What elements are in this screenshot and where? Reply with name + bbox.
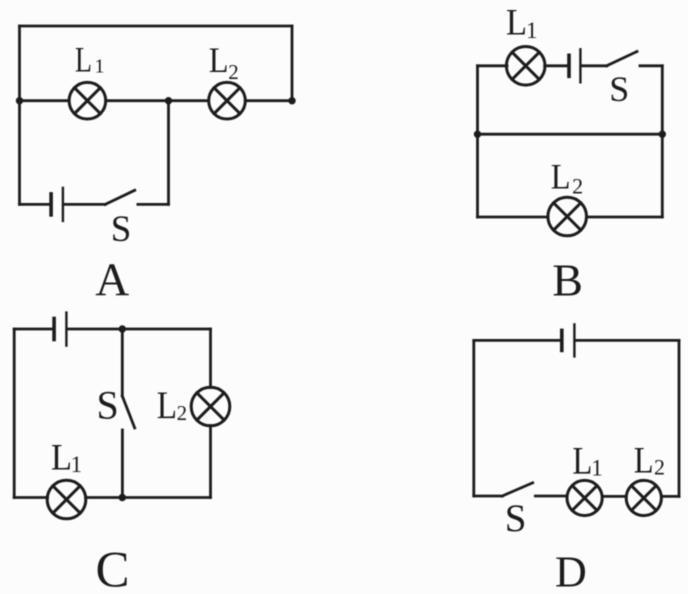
svg-text:L: L — [572, 439, 592, 482]
svg-text:L: L — [75, 39, 92, 79]
lamp L2 (circuit A) — [209, 82, 246, 119]
svg-text:S: S — [505, 497, 527, 540]
label L2 (circuit C) — [157, 384, 187, 427]
wire: circuit A top — [20, 25, 293, 28]
lamp L1 (circuit C) — [47, 480, 86, 519]
wire: circuit B bottom right — [586, 216, 662, 219]
lamp L1 (circuit A) — [69, 82, 106, 119]
wire: circuit A middle row right — [246, 99, 292, 102]
wire: circuit D left vertical — [472, 340, 475, 496]
label L1 (circuit B) — [506, 1, 538, 43]
svg-text:S: S — [97, 383, 119, 428]
label L2 (circuit A) — [209, 40, 239, 84]
wire: circuit A right vertical — [291, 26, 294, 101]
wire: circuit B left vertical — [476, 66, 479, 217]
svg-text:L: L — [506, 1, 527, 42]
svg-text:L: L — [209, 40, 229, 80]
label L1 (circuit A) — [75, 39, 105, 79]
svg-text:1: 1 — [591, 456, 603, 481]
wire: circuit B middle row — [478, 133, 663, 136]
wire: circuit D lamp to corner — [662, 495, 679, 498]
svg-text:2: 2 — [228, 60, 239, 84]
lamp L1 (circuit B) — [506, 47, 545, 86]
wire: circuit B switch to corner — [640, 64, 662, 67]
svg-text:S: S — [609, 69, 629, 109]
junction node (circuit A left) — [16, 97, 23, 104]
label L2 (circuit D) — [634, 439, 665, 480]
wire: circuit D top left — [474, 339, 560, 342]
svg-text:S: S — [111, 209, 132, 250]
svg-text:2: 2 — [177, 401, 188, 425]
wire: circuit B top left — [478, 64, 508, 67]
svg-text:L: L — [157, 384, 177, 427]
switch S blade (circuit B) — [607, 52, 637, 66]
wire: circuit C top right — [68, 328, 211, 331]
svg-text:A: A — [95, 254, 129, 306]
wire: circuit A battery to switch — [64, 203, 105, 206]
wire: circuit C bottom left — [14, 496, 47, 499]
wire: circuit B right vertical — [661, 66, 664, 217]
wire: circuit A bottom left — [20, 203, 50, 206]
svg-text:2: 2 — [654, 454, 665, 479]
wire: circuit A centre vertical — [167, 101, 170, 205]
junction node (circuit B right) — [659, 131, 666, 138]
label L2 (circuit B) — [551, 157, 583, 199]
switch S blade (circuit A) — [105, 190, 135, 204]
lamp L1 (circuit D) — [567, 480, 602, 515]
battery cell (circuit A) — [51, 188, 63, 221]
svg-text:L: L — [51, 436, 72, 477]
svg-text:L: L — [634, 439, 654, 480]
wire: circuit D right vertical — [678, 340, 681, 496]
junction node (circuit C bottom) — [119, 494, 126, 501]
wire: circuit D switch to lamp — [535, 495, 566, 498]
svg-text:1: 1 — [526, 18, 538, 43]
junction node (circuit A right) — [288, 97, 295, 104]
lamp L2 (circuit B) — [548, 197, 587, 236]
svg-text:1: 1 — [95, 56, 105, 78]
wire: circuit C right vertical lower — [209, 426, 212, 498]
switch S blade (circuit D) — [502, 483, 533, 496]
wire: circuit A middle row left — [20, 99, 69, 102]
wire: circuit D bottom left — [474, 495, 502, 498]
lamp L2 (circuit C) — [191, 387, 230, 426]
wire: circuit C switch branch lower — [121, 430, 124, 498]
svg-text:L: L — [551, 157, 571, 197]
battery cell (circuit B) — [569, 49, 580, 82]
wire: circuit D top right — [576, 339, 679, 342]
wire: circuit A middle row centre — [106, 99, 208, 102]
junction node (circuit A centre) — [165, 97, 172, 104]
switch S blade (circuit C) — [122, 396, 134, 428]
wire: circuit C right vertical upper — [209, 329, 212, 388]
svg-text:1: 1 — [71, 452, 83, 477]
wire: circuit B bottom left — [478, 216, 549, 219]
svg-text:C: C — [95, 542, 129, 594]
battery cell (circuit D) — [562, 324, 575, 356]
wire: circuit A left vertical — [18, 26, 21, 204]
wire: circuit B lamp to battery — [545, 64, 568, 67]
svg-text:B: B — [552, 254, 583, 305]
label L1 (circuit C) — [51, 436, 82, 477]
svg-text:D: D — [555, 547, 587, 594]
wire: circuit C top left — [14, 328, 52, 331]
junction node (circuit C top) — [119, 325, 126, 332]
junction node (circuit B left) — [474, 131, 481, 138]
battery cell (circuit C) — [54, 313, 66, 346]
wire: circuit C switch branch upper — [121, 329, 124, 396]
wire: circuit B battery to switch — [582, 64, 607, 67]
wire: circuit D between lamps — [602, 495, 626, 498]
wire: circuit C left vertical — [13, 329, 16, 498]
lamp L2 (circuit D) — [626, 480, 661, 515]
wire: circuit C bottom right — [86, 496, 211, 499]
label L1 (circuit D) — [572, 439, 602, 482]
wire: circuit A switch to vertical — [138, 203, 169, 206]
svg-text:2: 2 — [572, 174, 583, 199]
